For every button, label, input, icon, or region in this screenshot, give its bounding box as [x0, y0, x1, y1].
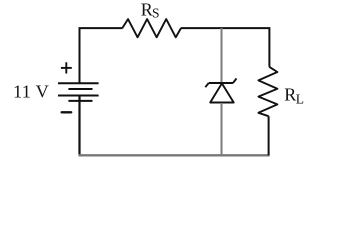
- wire left: battery negative terminal down to bottom rail: [78, 96, 80, 155]
- battery V1 plate 3 (long): [58, 95, 99, 97]
- wire zener branch bottom: zener anode down to bottom rail: [221, 103, 223, 156]
- zener diode D1: anode triangle: [210, 83, 234, 102]
- resistor RS (zigzag): [122, 19, 181, 37]
- resistor RL (vertical zigzag): [258, 67, 277, 116]
- battery minus sign: [62, 111, 72, 113]
- wire zener branch top: node on top rail down to zener cathode: [221, 28, 223, 83]
- wire bottom rail: [79, 154, 270, 156]
- zener diode D1: cathode bar with bent ends: [205, 78, 236, 87]
- battery plus sign: [61, 62, 72, 73]
- wire right: resistor RL down to bottom rail: [268, 116, 270, 155]
- battery V1 plate 2 (short): [68, 88, 92, 90]
- svg-text:11 V: 11 V: [13, 82, 49, 102]
- wire top-left: battery positive terminal to resistor RS: [80, 28, 123, 83]
- battery V1 plate 4 (short, -): [68, 100, 92, 102]
- wire top-right: resistor RS to resistor RL, through node at zener: [181, 28, 270, 67]
- battery V1 plate 1 (long, +): [58, 82, 99, 84]
